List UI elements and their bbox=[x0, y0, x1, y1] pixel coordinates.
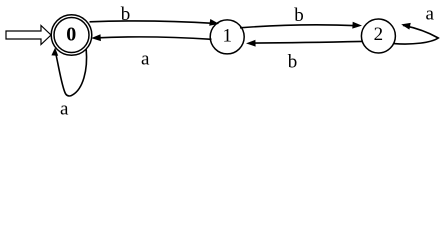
state 0 (accepting, double circle) bbox=[51, 15, 92, 56]
svg-text:a: a bbox=[141, 49, 150, 70]
edge 0->1 (label b) bbox=[90, 4, 220, 26]
svg-text:1: 1 bbox=[222, 26, 232, 47]
start arrow bbox=[6, 26, 51, 45]
svg-text:b: b bbox=[121, 4, 131, 25]
svg-text:a: a bbox=[60, 99, 69, 120]
edge 1->2 (label b) bbox=[240, 5, 362, 29]
svg-text:b: b bbox=[288, 52, 298, 73]
svg-text:2: 2 bbox=[374, 24, 384, 45]
svg-text:0: 0 bbox=[66, 24, 76, 46]
svg-text:b: b bbox=[294, 5, 304, 26]
state 2 bbox=[361, 19, 395, 53]
self loop on 2 (label a) bbox=[394, 3, 439, 44]
svg-text:a: a bbox=[425, 3, 434, 24]
state 1 bbox=[210, 20, 244, 54]
edge 2->1 (label b) bbox=[246, 40, 363, 73]
edge 1->0 (label a) bbox=[91, 34, 211, 69]
self loop on 0 (label a) bbox=[51, 48, 86, 120]
